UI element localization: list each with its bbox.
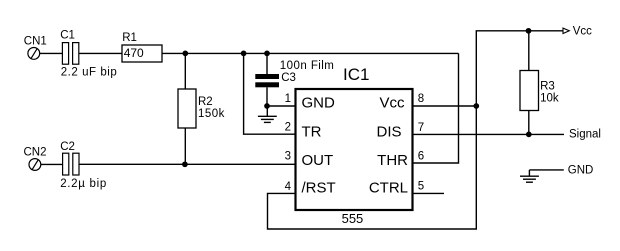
svg-text:2: 2 [285,122,291,134]
wire R2 bottom [184,128,186,164]
ground at pin 1 [258,106,277,122]
svg-text:1: 1 [285,93,291,105]
svg-text:CTRL: CTRL [369,179,408,196]
capacitor C3 [255,74,279,87]
wire [40,52,63,54]
svg-text:CN2: CN2 [24,146,47,158]
svg-text:TR: TR [302,123,322,140]
svg-text:CN1: CN1 [24,35,47,47]
wire R3 bottom [528,111,530,135]
node junction R3 bottom [526,132,532,138]
wire R3 top [528,31,530,71]
svg-text:3: 3 [285,151,291,163]
svg-text:Vcc: Vcc [379,95,405,112]
svg-text:2.2 uF bip: 2.2 uF bip [61,67,118,79]
svg-text:8: 8 [418,93,424,105]
svg-text:100n Film: 100n Film [280,60,335,72]
svg-text:5: 5 [418,181,424,193]
node junction pin1-ground [264,103,270,109]
svg-text:Signal: Signal [569,129,601,141]
power Vcc arrow [563,28,569,33]
node junction TR branch [241,51,247,57]
svg-text:C1: C1 [60,29,75,41]
svg-text:R3: R3 [540,81,555,93]
wire [79,52,122,54]
svg-text:GND: GND [302,95,336,112]
svg-text:2.2µ bip: 2.2µ bip [60,178,107,190]
connector CN1 [28,48,40,60]
wire OUT row [79,163,296,165]
label R3 10k [540,81,559,105]
svg-text:GND: GND [568,165,594,177]
node junction R2-OUT [182,161,188,167]
wire [41,163,63,165]
svg-text:R1: R1 [122,32,137,44]
wire pin 1 GND [267,105,296,107]
ground right [520,170,564,182]
svg-text:6: 6 [418,150,424,162]
node junction R1-R2 [182,51,188,57]
svg-text:OUT: OUT [302,152,334,169]
wire pin 5 stub [413,192,445,194]
svg-text:C3: C3 [281,72,296,84]
svg-text:470: 470 [124,46,144,60]
node junction Vcc-R3 [526,28,532,34]
svg-text:R2: R2 [198,96,213,108]
wire C3 top [266,53,268,74]
node junction C3 top [264,51,270,57]
resistor R3 [520,71,539,111]
svg-text:IC1: IC1 [343,65,369,84]
resistor R1 [122,45,162,62]
svg-text:DIS: DIS [376,123,401,140]
IC IC1 box [296,89,413,210]
wire DIS-Signal [413,133,565,135]
capacitor C1 [62,43,78,65]
connector CN2 [29,159,41,171]
capacitor C2 [63,153,79,175]
node junction pin8-rail [473,103,479,109]
svg-text:C2: C2 [60,141,75,153]
wire pin 6 THR up [413,53,459,163]
wire [162,52,459,54]
wire pin 8 to Vcc rail [413,105,477,107]
wire RST to Vcc loop [268,31,564,229]
wire R2 top [184,53,186,89]
wire TR branch [244,53,296,134]
svg-text:/RST: /RST [302,179,336,196]
resistor R2 [178,89,196,128]
wire C3 bottom [266,87,268,106]
svg-text:Vcc: Vcc [573,26,592,38]
svg-text:7: 7 [418,122,424,134]
svg-text:150k: 150k [198,108,225,120]
label R2 150k [198,96,225,120]
svg-text:10k: 10k [540,93,559,105]
svg-text:555: 555 [342,211,364,226]
svg-text:THR: THR [377,152,408,169]
svg-text:4: 4 [285,181,292,193]
